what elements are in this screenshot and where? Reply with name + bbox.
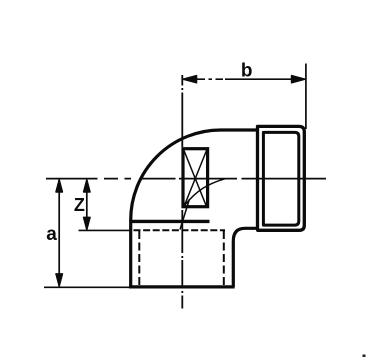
socket bell outer outline bbox=[258, 126, 305, 230]
dimension b line bbox=[184, 78, 305, 80]
speck bottom right bbox=[363, 355, 366, 357]
seal ring diagonal TR-BL bbox=[184, 151, 207, 207]
dimension Z bottom arrow bbox=[84, 217, 91, 230]
horizontal centerline bbox=[46, 178, 326, 180]
socket bell inner wall line bbox=[263, 132, 298, 225]
body right edge with fillet under socket bbox=[233, 228, 257, 287]
dimension b left arrow bbox=[184, 76, 197, 83]
hidden bore right dashed line bbox=[223, 231, 225, 286]
bottom edge bbox=[129, 285, 235, 288]
dimension b right extension line bbox=[305, 64, 307, 130]
inner corner thin curve bbox=[185, 179, 225, 205]
svg-text:a: a bbox=[46, 224, 57, 245]
dimension Z line bbox=[86, 180, 88, 229]
hidden bore left dashed line bbox=[138, 231, 140, 286]
dimension a bottom arrow bbox=[56, 274, 63, 287]
svg-text:b: b bbox=[241, 61, 253, 82]
socket depth line (Z level) bbox=[132, 220, 210, 223]
dimension a line bbox=[58, 180, 60, 286]
dimension b right arrow bbox=[292, 76, 305, 83]
dimension Z top arrow bbox=[84, 180, 91, 193]
vertical centerline bbox=[181, 75, 183, 309]
svg-text:Z: Z bbox=[74, 195, 85, 215]
dimension Z bottom extension line bbox=[79, 229, 132, 231]
dimension a top arrow bbox=[56, 180, 63, 193]
dimension a bottom extension line bbox=[44, 286, 129, 288]
seal ring diagonal TL-BR bbox=[184, 151, 207, 207]
seal ring rectangle bbox=[183, 149, 208, 207]
elbow body outline: left edge, outer arc, top edge bbox=[131, 130, 258, 287]
hidden bore top dashed line bbox=[134, 229, 226, 231]
seal ring diagonal extension below rect bbox=[180, 199, 190, 230]
